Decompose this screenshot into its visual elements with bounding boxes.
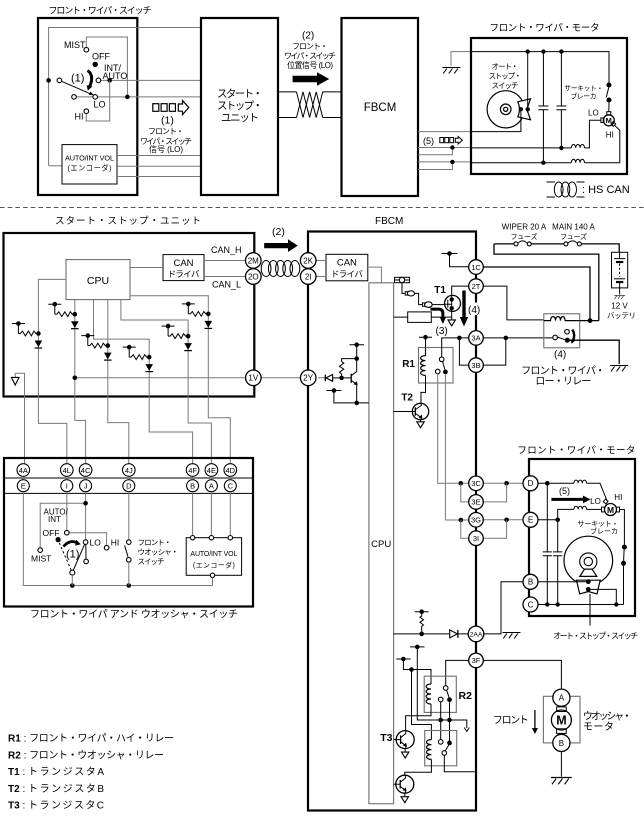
svg-text:HI: HI xyxy=(111,538,120,548)
wire CAN driver to CPU xyxy=(368,267,382,283)
R1 contact lines down to 3C / 3G xyxy=(438,374,469,484)
connector 3F xyxy=(469,653,484,668)
svg-text:ドライバ: ドライバ xyxy=(331,269,363,279)
unit internal line C3 (to 4J) xyxy=(108,300,129,464)
svg-text:フロント・: フロント・ xyxy=(148,127,184,136)
svg-text:I: I xyxy=(66,482,68,491)
wire 1V to 2Y xyxy=(262,377,302,379)
connector 3A xyxy=(469,331,484,346)
bent black arrow (3) xyxy=(431,309,443,318)
R2 upper contacts xyxy=(443,686,448,691)
twisted pair coil (unit to FBCM) xyxy=(278,92,342,118)
resistor/diode cluster C2 xyxy=(48,302,78,329)
label (4) xyxy=(467,303,482,316)
svg-text:(2): (2) xyxy=(272,226,285,238)
svg-text:M: M xyxy=(556,714,566,728)
FBCM box (top) xyxy=(342,18,419,196)
connector 3C xyxy=(469,476,484,491)
connector 3G xyxy=(469,513,484,528)
B wire to auto stop xyxy=(538,581,586,583)
connector B (washer) xyxy=(553,734,570,751)
svg-text:フューズ: フューズ xyxy=(511,232,538,241)
svg-text:T1: T1 xyxy=(434,285,446,296)
svg-text:(5): (5) xyxy=(423,136,434,146)
2Y resistor up + stub xyxy=(339,345,364,376)
connector C xyxy=(523,597,538,612)
svg-text:LO: LO xyxy=(90,537,102,547)
connector E xyxy=(523,512,538,527)
washer B to ground xyxy=(560,752,562,777)
unit internal line C6 (to 4D) xyxy=(130,296,230,464)
svg-text:D: D xyxy=(528,479,534,488)
contact MIST xyxy=(84,47,89,52)
connector 2T xyxy=(469,279,484,294)
fuse supply wire xyxy=(494,244,619,252)
curved arrow xyxy=(88,71,92,88)
R2 supply stub 1 xyxy=(410,647,467,728)
svg-text:E: E xyxy=(21,482,26,491)
svg-text:B: B xyxy=(559,739,564,748)
wires encoder to unit xyxy=(117,156,202,177)
svg-text:4L: 4L xyxy=(63,466,71,475)
wire I to OFF xyxy=(66,492,68,531)
svg-text:1V: 1V xyxy=(248,374,258,383)
2Y transistor (no circle) xyxy=(350,374,352,383)
contact lines down xyxy=(441,702,450,741)
svg-text:バッテリ: バッテリ xyxy=(607,311,636,320)
capacitor 2 (top) xyxy=(556,52,566,148)
connector 3I xyxy=(469,531,484,546)
wire E down + bottom bus xyxy=(23,492,212,586)
contact OFF (lower sw) xyxy=(65,530,70,535)
CAN driver box (unit) xyxy=(163,255,204,281)
resistor/diode cluster C1 xyxy=(12,321,42,348)
svg-text:LO: LO xyxy=(94,100,106,110)
svg-text:(3): (3) xyxy=(436,326,448,337)
connector A xyxy=(205,480,217,492)
svg-text:4A: 4A xyxy=(19,466,28,475)
contact LO (lower sw) xyxy=(83,540,88,545)
svg-text:フロント・: フロント・ xyxy=(292,42,328,51)
capacitor 2 (lower) xyxy=(553,520,562,605)
svg-text:CPU: CPU xyxy=(371,539,391,550)
svg-text:ストップ・: ストップ・ xyxy=(217,100,263,112)
connector 2AA xyxy=(468,626,484,642)
svg-text:HI: HI xyxy=(75,112,84,122)
svg-text:(1): (1) xyxy=(161,115,174,127)
svg-text:12 V: 12 V xyxy=(611,302,628,311)
svg-text:4J: 4J xyxy=(125,466,133,475)
circuit breaker (lower) xyxy=(620,510,625,545)
svg-text:C: C xyxy=(528,600,534,609)
lower contact out xyxy=(444,755,475,771)
svg-text:フロント・ワイパ・モータ: フロント・ワイパ・モータ xyxy=(517,446,635,457)
ground (2AA) xyxy=(503,633,521,639)
auto stop switch disc (top) xyxy=(487,91,524,128)
wires CAN driver to 2M 2O xyxy=(204,261,246,277)
wire 1C to relay node xyxy=(483,267,590,321)
FBCM output wires xyxy=(418,131,471,133)
fuse MAIN 140A xyxy=(564,242,568,246)
front wiper low relay box xyxy=(544,314,580,348)
svg-text:OFF: OFF xyxy=(92,52,110,62)
front wiper motor box (lower) xyxy=(529,459,635,616)
svg-text:4E: 4E xyxy=(207,466,216,475)
D wire + HI coil + diagonal xyxy=(538,482,574,484)
svg-text:ドライバ: ドライバ xyxy=(168,269,200,279)
connector 2Y xyxy=(300,370,316,386)
relay R2 lower box xyxy=(425,731,457,766)
svg-text:INT: INT xyxy=(48,515,61,524)
svg-text:2I: 2I xyxy=(305,272,312,281)
oval component 2 xyxy=(422,303,424,306)
svg-text:4D: 4D xyxy=(226,466,236,475)
svg-text:オート・: オート・ xyxy=(492,62,519,71)
wire D to washer switch xyxy=(128,492,130,540)
contact common xyxy=(57,78,62,83)
svg-text:2AA: 2AA xyxy=(470,632,483,639)
wire R2 common to 3F xyxy=(446,660,469,685)
R2 lower coil xyxy=(427,740,432,760)
switch lever xyxy=(62,81,91,94)
svg-text:サーキット・: サーキット・ xyxy=(578,520,619,528)
CPU box (FBCM) xyxy=(369,283,394,804)
svg-text:C: C xyxy=(228,482,234,491)
C wire xyxy=(538,604,624,606)
connector B xyxy=(523,574,538,589)
svg-text:: HS CAN: : HS CAN xyxy=(582,184,630,196)
svg-text:3E: 3E xyxy=(471,498,480,507)
connector 2M xyxy=(246,253,262,269)
svg-text:T2 : トランジスタB: T2 : トランジスタB xyxy=(8,783,104,795)
fuse WIPER 20A xyxy=(514,242,518,246)
svg-text:T2: T2 xyxy=(401,393,413,404)
wire 2T to low relay coil xyxy=(483,286,544,320)
wire 3A to low relay xyxy=(483,337,553,339)
svg-text:B: B xyxy=(190,482,195,491)
svg-text:2Y: 2Y xyxy=(303,374,313,383)
R2 upper coil to T3 xyxy=(406,704,431,731)
front wiper switch box xyxy=(38,18,137,195)
wire J to LO, MIST branch xyxy=(40,492,85,548)
svg-text:ウオッシャ・: ウオッシャ・ xyxy=(138,548,179,557)
R2 supply stub 2 xyxy=(396,659,411,670)
supply stub for 1C xyxy=(442,254,470,267)
supply stub for R1 coil xyxy=(419,337,432,347)
svg-text:フロント・ワイパ・スイッチ: フロント・ワイパ・スイッチ xyxy=(49,6,152,16)
svg-text:LO: LO xyxy=(590,497,601,506)
connector 3E xyxy=(469,495,484,510)
svg-text:AUTO: AUTO xyxy=(103,71,128,81)
connector 4A xyxy=(17,464,30,477)
curved arrow (1) lower xyxy=(64,542,78,547)
svg-text:2M: 2M xyxy=(248,256,259,265)
svg-text:T3: T3 xyxy=(380,732,392,744)
washer motor xyxy=(543,696,580,743)
contact INT/AUTO xyxy=(96,78,101,83)
contact below LO xyxy=(85,544,87,559)
top bus wire xyxy=(471,52,609,84)
relay R2 upper box xyxy=(424,676,456,712)
svg-text:ウオッシャ・: ウオッシャ・ xyxy=(583,711,632,723)
svg-text:スタート・: スタート・ xyxy=(217,88,263,100)
wire T1 to 2T xyxy=(452,286,469,295)
unit internal line C1 (to 4L) xyxy=(38,279,66,464)
wire to oval component 2 xyxy=(415,293,423,304)
contact LO pair xyxy=(72,95,77,100)
svg-text:位置信号 (LO): 位置信号 (LO) xyxy=(287,60,333,70)
low relay contact to ground xyxy=(570,340,620,364)
switch box xyxy=(4,458,253,607)
start stop unit box xyxy=(4,233,255,397)
motor M (top) xyxy=(603,115,614,126)
wire OFF to HI xyxy=(69,533,107,546)
contact OFF (dot) xyxy=(93,62,98,67)
connector 1V xyxy=(246,370,262,386)
svg-text:FBCM: FBCM xyxy=(375,216,403,227)
connector J xyxy=(80,480,92,492)
svg-text:オート・ストップ・スイッチ: オート・ストップ・スイッチ xyxy=(553,632,638,641)
svg-text:B: B xyxy=(528,578,533,587)
connector 4D xyxy=(224,464,237,477)
svg-text:AUTO/INT VOL: AUTO/INT VOL xyxy=(190,551,237,558)
junction LO/MIST xyxy=(125,95,130,100)
LO wire + coil xyxy=(585,120,601,148)
R2 upper coil xyxy=(426,684,431,704)
encoder box (lower) xyxy=(186,538,241,576)
svg-text:WIPER 20 A: WIPER 20 A xyxy=(502,223,547,232)
washer M xyxy=(557,707,567,712)
svg-text:フューズ: フューズ xyxy=(560,232,587,241)
contact MIST (lower sw) xyxy=(38,548,43,553)
connector 4L xyxy=(61,464,74,477)
svg-text:(4): (4) xyxy=(554,350,566,361)
wire common feed (top) xyxy=(49,28,202,166)
svg-text:(4): (4) xyxy=(468,305,480,316)
wire to upper coil xyxy=(412,670,432,685)
svg-text:ストップ・: ストップ・ xyxy=(489,72,522,81)
unit internal line C2 (to 4C) xyxy=(75,300,86,464)
wire LO out xyxy=(76,96,202,98)
svg-text:信号 (LO): 信号 (LO) xyxy=(149,144,183,154)
resistor/diode cluster C4 xyxy=(123,345,153,372)
wires 2K 2I to CAN driver xyxy=(316,261,326,277)
svg-text:2O: 2O xyxy=(248,272,259,281)
svg-text:ロー・リレー: ロー・リレー xyxy=(535,377,591,388)
low relay coil right node xyxy=(580,320,599,322)
black arrow (2) xyxy=(264,239,298,252)
motor M (lower) xyxy=(605,504,617,516)
svg-text:CAN: CAN xyxy=(337,258,357,269)
svg-text:3B: 3B xyxy=(471,361,480,370)
rect component near T1 xyxy=(408,312,432,323)
svg-text:E: E xyxy=(528,516,533,525)
svg-text:(エンコーダ): (エンコーダ) xyxy=(193,561,235,570)
capacitor 1 (lower) xyxy=(543,483,552,604)
svg-text:ワイパ・スイッチ: ワイパ・スイッチ xyxy=(284,52,336,61)
svg-text:MAIN 140 A: MAIN 140 A xyxy=(552,223,595,232)
unit internal line C4 (to 4F) xyxy=(94,300,193,464)
wire 3G to E xyxy=(484,519,524,521)
LO coil wire xyxy=(587,508,602,510)
svg-text:HI: HI xyxy=(614,493,622,502)
connector 2K xyxy=(300,253,316,269)
node common dot xyxy=(46,78,51,83)
svg-text:T1 : トランジスタA: T1 : トランジスタA xyxy=(8,766,104,778)
svg-text:2K: 2K xyxy=(303,256,313,265)
circuit breaker (top) xyxy=(607,83,612,88)
2Y diode (pointing left) xyxy=(318,377,325,379)
connector 1C xyxy=(469,260,484,275)
wire auto-stop to FBCM xyxy=(471,112,521,132)
svg-text:(1): (1) xyxy=(66,549,79,561)
1V wire xyxy=(75,377,245,379)
wire to lower coil xyxy=(412,670,432,740)
wire CPU to CAN driver xyxy=(130,267,163,269)
capacitor 1 (top) xyxy=(538,52,548,163)
label leader auto stop xyxy=(589,594,591,626)
AUTO/INT VOL (encoder) box xyxy=(62,145,117,184)
wire 3F to washer motor xyxy=(483,660,561,689)
resistor/diode cluster C6 xyxy=(182,302,212,329)
contact HI (lower sw) xyxy=(104,545,109,550)
connector C xyxy=(224,480,236,492)
svg-text:OFF: OFF xyxy=(43,528,60,538)
svg-text:スタート・ストップ・ユニット: スタート・ストップ・ユニット xyxy=(55,216,201,227)
svg-text:サーキット・: サーキット・ xyxy=(564,85,603,93)
FBCM box (lower) xyxy=(308,232,476,811)
svg-text:CAN_H: CAN_H xyxy=(211,245,242,255)
wire MIST to LO net xyxy=(86,37,127,97)
svg-text:CPU: CPU xyxy=(87,275,109,287)
fuse component (internal) xyxy=(395,277,410,282)
wire to oval component 1 xyxy=(402,283,405,294)
svg-text:3F: 3F xyxy=(472,656,481,665)
auto stop lower contact to C wire xyxy=(591,589,617,604)
svg-text:D: D xyxy=(126,482,132,491)
HS CAN legend xyxy=(547,182,585,197)
connector 4C xyxy=(79,464,92,477)
washer switch contacts xyxy=(127,540,132,545)
icon (1) squares+arrow xyxy=(153,104,159,112)
connector 3B xyxy=(469,358,484,373)
svg-text:R1 : フロント・ワイパ・ハイ・リレー: R1 : フロント・ワイパ・ハイ・リレー xyxy=(8,733,174,745)
resistor/diode cluster C3 xyxy=(81,333,111,360)
svg-text:FBCM: FBCM xyxy=(364,102,397,114)
connector D xyxy=(523,476,538,491)
svg-text:R2 : フロント・ウオッシャ・リレー: R2 : フロント・ウオッシャ・リレー xyxy=(8,750,164,762)
connector 2O xyxy=(246,269,262,285)
E wire xyxy=(538,519,558,521)
svg-text:(エンコーダ): (エンコーダ) xyxy=(68,164,112,173)
black arrow (2) xyxy=(293,72,330,85)
node to CPU + stub xyxy=(326,391,369,403)
wire INT/AUTO out xyxy=(101,79,202,81)
twisted pair coil 2M-2K xyxy=(261,261,271,277)
dashed separator xyxy=(0,207,644,209)
connector B xyxy=(187,480,199,492)
connector E xyxy=(17,480,29,492)
start stop unit box xyxy=(201,18,278,195)
transistor (lower, unlabeled) xyxy=(396,775,414,793)
unit internal line C5 (to 4E) xyxy=(121,300,211,464)
svg-text:3G: 3G xyxy=(471,516,481,525)
relay feed wire xyxy=(494,244,599,321)
svg-text:MIST: MIST xyxy=(64,40,86,50)
svg-text:フロント・ワイパ・: フロント・ワイパ・ xyxy=(521,365,605,377)
svg-text:2T: 2T xyxy=(472,282,481,291)
battery 12V xyxy=(612,252,628,288)
svg-text:フロント・ワイパ・モータ: フロント・ワイパ・モータ xyxy=(490,23,600,34)
svg-text:CAN_L: CAN_L xyxy=(212,280,241,290)
svg-text:フロント: フロント xyxy=(493,716,529,727)
svg-text:MIST: MIST xyxy=(31,554,51,564)
svg-text:モータ: モータ xyxy=(583,721,614,733)
junction INT/AUTO xyxy=(107,78,112,83)
encoder contacts xyxy=(190,536,194,540)
supply stub + resistor at 2AA wire xyxy=(415,612,429,634)
wire HI to INT/AUTO junction xyxy=(86,80,109,121)
svg-text:A: A xyxy=(209,482,214,491)
ground-arrow terminal + line to 4A xyxy=(15,373,24,464)
svg-text:(2): (2) xyxy=(302,31,314,42)
svg-text:スイッチ: スイッチ xyxy=(492,81,519,90)
svg-text:スイッチ: スイッチ xyxy=(138,557,165,566)
connector 4E xyxy=(205,464,218,477)
pivot contact + lever xyxy=(70,570,75,575)
svg-text:3A: 3A xyxy=(471,334,480,343)
oval component 1 xyxy=(405,292,407,295)
CAN driver box (FBCM) xyxy=(326,254,368,280)
svg-text:ブレーカ: ブレーカ xyxy=(590,527,618,536)
svg-text:1C: 1C xyxy=(471,263,481,272)
resistor/diode cluster C5 xyxy=(162,324,192,351)
connector 4J xyxy=(123,464,136,477)
R1 common to 3A wire xyxy=(442,338,469,357)
svg-text:ブレーカ: ブレーカ xyxy=(571,92,597,101)
ground (low relay) xyxy=(610,366,628,372)
svg-text:3I: 3I xyxy=(473,534,479,543)
battery ground xyxy=(614,295,625,299)
contact HI xyxy=(84,109,89,114)
HI wire + coil xyxy=(585,125,620,163)
svg-text:T3 : トランジスタC: T3 : トランジスタC xyxy=(8,800,104,812)
R1 coil xyxy=(421,348,426,376)
connector I xyxy=(61,480,73,492)
black arrow (4) vertical xyxy=(462,291,465,318)
wire 2AA to B + ground xyxy=(484,582,523,634)
low relay coil xyxy=(544,316,580,320)
svg-text:(1): (1) xyxy=(71,73,84,85)
wires B A C to encoder xyxy=(193,492,231,538)
svg-text:HI: HI xyxy=(606,131,614,140)
svg-text:M: M xyxy=(607,505,614,515)
svg-text:フロント・ワイパ アンド ウオッシャ・スイッチ: フロント・ワイパ アンド ウオッシャ・スイッチ xyxy=(30,609,238,621)
R1 coil to T2 xyxy=(421,375,426,403)
auto stop disc (lower) xyxy=(564,536,613,585)
svg-text:フロント・: フロント・ xyxy=(138,538,172,547)
svg-text:LO: LO xyxy=(588,108,599,117)
CPU box (unit) xyxy=(66,260,130,300)
svg-text:J: J xyxy=(84,482,88,491)
svg-text:CAN: CAN xyxy=(173,258,193,269)
svg-text:ユニット: ユニット xyxy=(221,112,259,124)
R1 contacts xyxy=(439,357,444,362)
svg-text:R2: R2 xyxy=(459,690,473,702)
svg-text:3C: 3C xyxy=(471,479,481,488)
svg-text:4C: 4C xyxy=(81,466,91,475)
low relay contacts xyxy=(553,335,558,340)
